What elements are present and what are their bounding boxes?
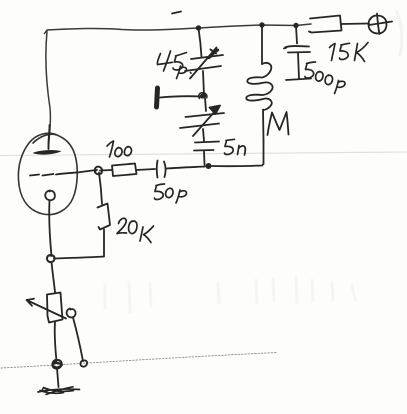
wire: 15K to terminal <box>342 23 370 26</box>
wire: 20K top lead <box>99 173 102 205</box>
variable capacitor 2: top wire <box>205 98 206 111</box>
potentiometer body <box>47 293 63 323</box>
node: bottom junction <box>206 163 212 169</box>
node: top wire / 500p branch junction <box>293 23 298 28</box>
capacitor 5n plates <box>195 142 219 143</box>
node: top wire / 45p branch junction <box>196 25 201 30</box>
ground symbol scribble <box>38 387 80 395</box>
tube anode plate <box>34 150 61 154</box>
label 100 <box>107 141 132 157</box>
tap terminal thick bar <box>157 88 158 107</box>
wire: cathode lead down <box>49 201 51 257</box>
capacitor 50p plates <box>156 161 159 178</box>
tube grid dashes <box>30 175 39 176</box>
wire: C50p to bottom junction <box>167 167 206 169</box>
faint scan smear top right <box>397 12 402 55</box>
resistor 100 box <box>112 164 137 177</box>
label 50p <box>155 184 187 203</box>
node: top wire / coil branch junction <box>259 22 264 27</box>
ground bus line (faint dotted chassis line) <box>1 353 277 369</box>
label 45p <box>157 51 186 71</box>
wire: pot bottom lead down <box>55 323 57 362</box>
label 500p <box>305 62 345 94</box>
variable capacitor 2 plates <box>186 113 225 117</box>
wire: R100 to C50p <box>137 169 156 170</box>
node: cathode junction blob <box>47 255 55 262</box>
wire: 5n to bottom junction <box>203 151 206 165</box>
tube V1 envelope <box>18 133 77 214</box>
wire: ground stem <box>57 368 59 387</box>
tube cathode loop <box>45 191 55 201</box>
potentiometer wiper contact loop <box>67 309 76 318</box>
node: wiper/ground junction blob <box>80 360 87 366</box>
wire: junction to coil bottom corner <box>211 141 264 166</box>
wire: 20K to cathode junction <box>54 257 104 259</box>
capacitor 500p <box>296 26 297 44</box>
label 20K <box>117 218 137 233</box>
wire: 20K bottom lead <box>103 230 105 257</box>
wire: 45p to mid junction <box>203 71 204 95</box>
wire: grid lead out to junction <box>56 170 97 175</box>
node: grid junction knot <box>95 167 102 175</box>
variable capacitor 45p plates <box>191 55 223 59</box>
wire: wiper lead down <box>73 318 83 362</box>
label 5n <box>225 139 246 155</box>
wire: tap stub to left <box>160 96 203 97</box>
wire: grid junction to R100 <box>100 169 112 172</box>
potentiometer wiper arrow <box>27 299 67 319</box>
stray pen dash <box>172 12 181 14</box>
variable capacitor 2 arrow <box>193 106 220 137</box>
wire: left vertical (plate supply) <box>46 32 51 150</box>
label 15K <box>330 43 369 62</box>
faint bleed-through smudges <box>105 278 355 312</box>
wire: anode lead into tube <box>48 125 49 149</box>
wire: junction down to potentiometer <box>52 262 56 292</box>
label M <box>268 112 289 135</box>
terminal circle (output) <box>369 16 387 34</box>
faint crease line across page <box>0 152 407 156</box>
resistor 15K box <box>309 16 342 33</box>
wire: top horizontal bus <box>45 24 312 34</box>
resistor 20K box <box>98 204 111 230</box>
node: mid junction (tap) <box>199 93 207 99</box>
inductor M coil <box>261 26 263 64</box>
node: main ground junction blob <box>53 360 63 369</box>
wire: varcap2 to 5n <box>203 129 204 141</box>
variable capacitor 45p arrow <box>190 48 217 79</box>
variable capacitor 45p: top wire <box>199 29 202 58</box>
